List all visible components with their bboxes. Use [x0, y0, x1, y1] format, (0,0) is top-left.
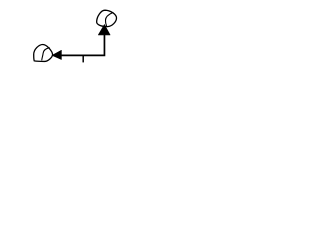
arrowhead into node A (filled triangle pointing up) [98, 25, 110, 35]
stub tick on wire [82, 56, 84, 62]
node B (left sketchy circle) [34, 45, 53, 62]
wire (elbow connector: horizontal then vertical up) [61, 35, 104, 56]
node A (top-right sketchy circle) [97, 10, 117, 26]
arrowhead into node B (filled triangle pointing left) [52, 50, 61, 59]
